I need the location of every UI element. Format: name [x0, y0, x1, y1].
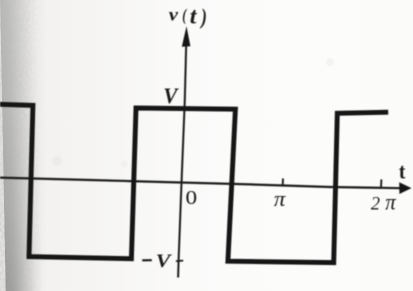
svg-text:V: V [163, 83, 179, 108]
svg-text:(: ( [182, 7, 187, 25]
svg-text:π: π [385, 189, 396, 215]
svg-text:0: 0 [186, 186, 198, 208]
svg-text:t: t [190, 4, 198, 30]
svg-text:): ) [199, 5, 207, 29]
svg-text:v: v [169, 6, 179, 25]
svg-text:π: π [274, 186, 286, 210]
svg-text:t: t [399, 161, 406, 184]
svg-text:2: 2 [371, 193, 380, 215]
svg-text:V: V [156, 251, 173, 271]
